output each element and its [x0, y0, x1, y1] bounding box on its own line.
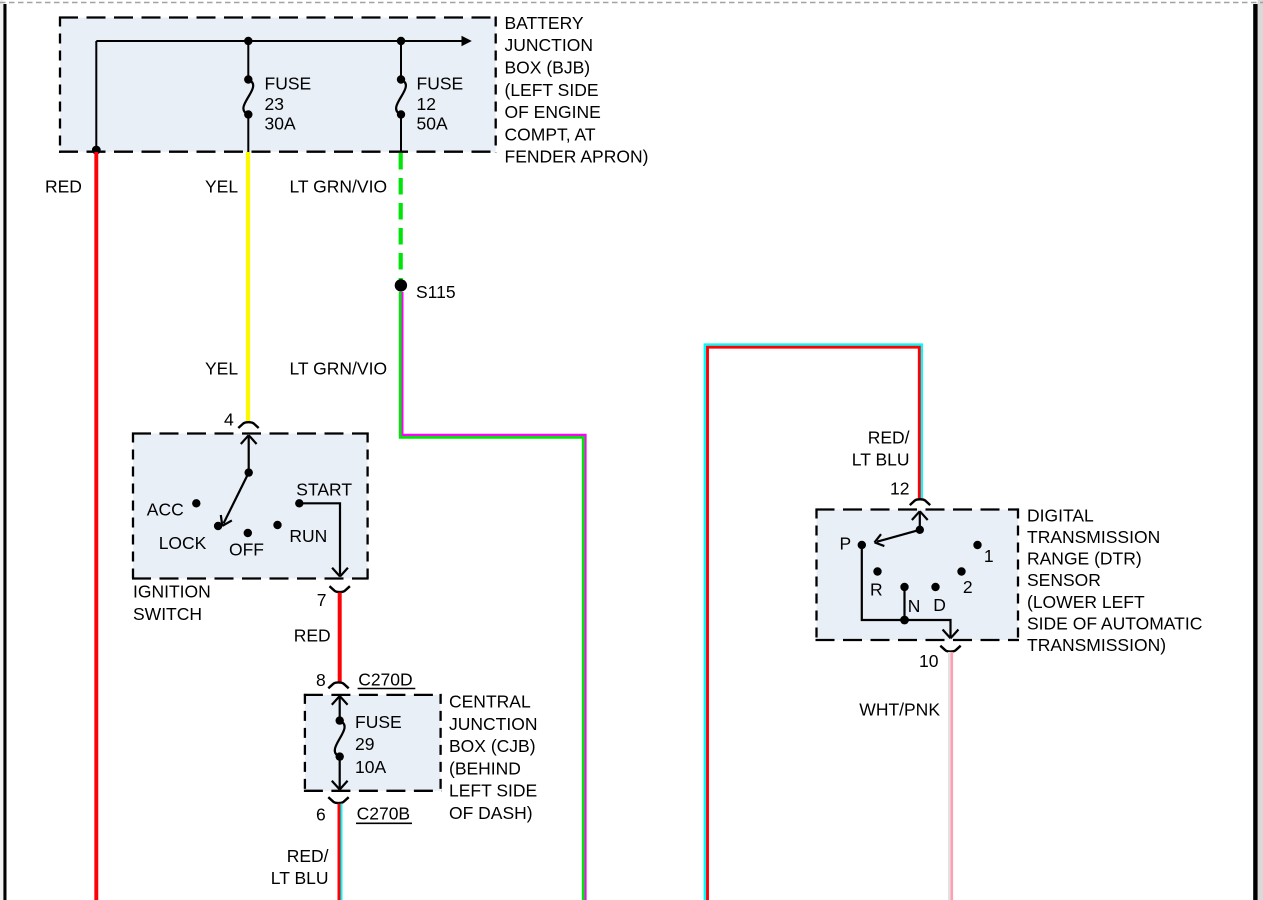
- contact R: [873, 567, 881, 575]
- contact START: [295, 499, 303, 507]
- label R: [870, 579, 883, 599]
- svg-text:FUSE: FUSE: [417, 74, 464, 94]
- svg-text:12: 12: [890, 478, 909, 498]
- svg-text:OF DASH): OF DASH): [449, 803, 533, 823]
- svg-text:LEFT SIDE: LEFT SIDE: [449, 781, 537, 801]
- svg-text:YEL: YEL: [205, 177, 238, 197]
- connector pin 7 (ignition switch): [330, 586, 350, 592]
- svg-text:(LEFT SIDE: (LEFT SIDE: [505, 80, 599, 100]
- svg-text:2: 2: [963, 577, 973, 597]
- junction dot rail-fuse 23: [244, 37, 252, 45]
- svg-text:FUSE: FUSE: [355, 712, 402, 732]
- svg-text:RED: RED: [45, 177, 82, 197]
- svg-text:DIGITAL: DIGITAL: [1027, 505, 1094, 525]
- label D: [933, 595, 946, 615]
- label pin 4: [224, 410, 234, 430]
- wire RED (pin 7 to C270D): [338, 593, 342, 682]
- svg-text:S115: S115: [416, 282, 456, 302]
- svg-text:7: 7: [317, 590, 327, 610]
- svg-text:BATTERY: BATTERY: [505, 13, 584, 33]
- contact RUN: [273, 521, 281, 529]
- box CJB (Central Junction Box): [304, 694, 442, 792]
- label YEL lower: [205, 359, 238, 379]
- svg-text:C270B: C270B: [357, 804, 411, 824]
- svg-text:JUNCTION: JUNCTION: [449, 714, 537, 734]
- label FUSE 23 30A: [265, 74, 312, 134]
- svg-text:IGNITION: IGNITION: [133, 582, 211, 602]
- svg-text:START: START: [296, 479, 352, 499]
- svg-text:(BEHIND: (BEHIND: [449, 758, 521, 778]
- fuse F23 (BJB): [243, 41, 253, 152]
- fuse F12 (BJB): [396, 41, 406, 152]
- label LT GRN/VIO lower: [290, 359, 388, 379]
- svg-text:OF ENGINE: OF ENGINE: [505, 102, 601, 122]
- label FUSE 12 50A: [417, 74, 464, 134]
- svg-text:D: D: [933, 595, 946, 615]
- svg-text:LT GRN/VIO: LT GRN/VIO: [290, 177, 388, 197]
- label RED/LT BLU (left): [271, 846, 329, 888]
- svg-text:TRANSMISSION: TRANSMISSION: [1027, 527, 1160, 547]
- contact LOCK: [214, 522, 222, 530]
- svg-text:RED: RED: [294, 625, 331, 645]
- label WHT/PNK: [859, 700, 940, 720]
- svg-text:RED/: RED/: [868, 427, 910, 447]
- contact D: [931, 583, 939, 591]
- label YEL upper: [205, 177, 238, 197]
- label RED/LT BLU (right): [852, 427, 910, 469]
- label 1: [984, 546, 994, 566]
- label FUSE 29 10A: [355, 712, 402, 777]
- svg-text:12: 12: [417, 94, 436, 114]
- label START: [296, 479, 352, 499]
- contact OFF: [244, 529, 252, 537]
- label pin 7: [317, 590, 327, 610]
- label pin 6: [316, 805, 326, 825]
- switch arm to P: [875, 530, 920, 546]
- svg-text:SIDE OF AUTOMATIC: SIDE OF AUTOMATIC: [1027, 613, 1202, 633]
- label pin 12: [890, 478, 909, 498]
- label CJB (CENTRAL JUNCTION BOX ...): [449, 692, 537, 824]
- wire RED/LT BLU (C270B to bottom): [339, 804, 342, 900]
- svg-text:4: 4: [224, 410, 234, 430]
- box DTR sensor: [816, 509, 1020, 642]
- box ignition switch: [132, 433, 369, 580]
- label P: [840, 534, 852, 554]
- svg-text:LT BLU: LT BLU: [852, 449, 910, 469]
- svg-text:LT BLU: LT BLU: [271, 868, 329, 888]
- contact ACC: [192, 499, 200, 507]
- svg-text:6: 6: [316, 805, 326, 825]
- junction dot N-output: [900, 616, 909, 625]
- connector pin 12 (DTR): [910, 499, 930, 505]
- label 2: [963, 577, 973, 597]
- label DTR (DIGITAL TRANSMISSION RANGE ...): [1027, 505, 1202, 655]
- label C270B: [356, 804, 412, 824]
- svg-text:P: P: [840, 534, 852, 554]
- svg-text:R: R: [870, 579, 883, 599]
- label LT GRN/VIO upper: [290, 177, 388, 197]
- wire RED/LT BLU (bridge to DTR pin 12): [705, 345, 922, 900]
- svg-text:N: N: [908, 596, 921, 616]
- label BJB (BATTERY JUNCTION BOX ...): [505, 13, 649, 167]
- label N: [908, 596, 921, 616]
- svg-text:FUSE: FUSE: [265, 74, 312, 94]
- svg-text:BOX (BJB): BOX (BJB): [505, 58, 591, 78]
- svg-text:TRANSMISSION): TRANSMISSION): [1027, 635, 1166, 655]
- svg-text:(LOWER LEFT: (LOWER LEFT: [1027, 592, 1145, 612]
- svg-text:RED/: RED/: [287, 846, 329, 866]
- wire YEL (BJB to ignition pin 4): [246, 152, 250, 422]
- connector pin 8 C270D: [328, 682, 348, 688]
- switch arm common (pin 4 arrow and pivot): [241, 435, 257, 477]
- label IGNITION SWITCH: [133, 582, 211, 624]
- wire BJB left feed drop: [95, 41, 97, 150]
- label ACC: [147, 499, 184, 519]
- label RED (ignition to CJB): [294, 625, 331, 645]
- svg-text:SENSOR: SENSOR: [1027, 570, 1101, 590]
- svg-text:COMPT, AT: COMPT, AT: [505, 124, 596, 144]
- label C270D: [358, 670, 416, 690]
- box BJB (Battery Junction Box): [59, 17, 497, 153]
- contact 1: [973, 541, 981, 549]
- svg-text:SWITCH: SWITCH: [133, 604, 202, 624]
- contact 2: [957, 567, 965, 575]
- svg-text:RUN: RUN: [289, 526, 327, 546]
- wire N drop to output: [903, 587, 905, 620]
- wire P to pin 10: [862, 545, 959, 638]
- svg-text:1: 1: [984, 546, 994, 566]
- contact P: [858, 541, 866, 549]
- connector pin 4 (ignition switch): [238, 422, 258, 428]
- junction dot rail-fuse 12: [397, 37, 405, 45]
- svg-text:FENDER APRON): FENDER APRON): [505, 147, 649, 167]
- svg-text:LT GRN/VIO: LT GRN/VIO: [290, 359, 388, 379]
- wire START to pin 7: [299, 503, 348, 576]
- svg-text:10A: 10A: [355, 757, 386, 777]
- label OFF: [229, 540, 264, 560]
- svg-text:C270D: C270D: [358, 670, 412, 690]
- svg-text:BOX (CJB): BOX (CJB): [449, 736, 536, 756]
- svg-text:23: 23: [265, 94, 284, 114]
- svg-text:YEL: YEL: [205, 359, 238, 379]
- svg-text:LOCK: LOCK: [159, 533, 207, 553]
- label RUN: [289, 526, 327, 546]
- svg-text:CENTRAL: CENTRAL: [449, 692, 531, 712]
- connector pin 6 C270B: [328, 797, 348, 803]
- svg-text:OFF: OFF: [229, 540, 264, 560]
- fuse F29 (CJB) with entry/exit arrows: [332, 696, 348, 790]
- svg-text:ACC: ACC: [147, 499, 184, 519]
- wire LT GRN/VIO solid (S115 to bottom): [400, 292, 585, 900]
- svg-text:8: 8: [316, 670, 326, 690]
- switch arm common DTR (pin 12 arrow and pivot): [912, 511, 928, 534]
- svg-text:10: 10: [919, 651, 939, 671]
- svg-text:29: 29: [355, 734, 374, 754]
- label LOCK: [159, 533, 207, 553]
- svg-text:WHT/PNK: WHT/PNK: [859, 700, 940, 720]
- label pin 8: [316, 670, 326, 690]
- switch arm to LOCK: [221, 473, 249, 526]
- svg-text:RANGE (DTR): RANGE (DTR): [1027, 549, 1142, 569]
- label RED: [45, 177, 82, 197]
- connector pin 10 (DTR): [940, 646, 960, 652]
- junction dot rail-left feed: [92, 146, 101, 155]
- splice S115: [395, 279, 407, 291]
- svg-text:30A: 30A: [265, 114, 296, 134]
- wire RED (BJB to bottom): [94, 152, 98, 900]
- svg-text:50A: 50A: [417, 114, 448, 134]
- label pin 10: [919, 651, 939, 671]
- label S115: [416, 282, 456, 302]
- wire BJB power rail with arrow: [96, 36, 472, 47]
- svg-text:JUNCTION: JUNCTION: [505, 35, 593, 55]
- wire WHT/PNK (pin 10 to bottom): [949, 652, 952, 900]
- wire LT GRN/VIO dashed (BJB to S115): [399, 153, 403, 280]
- contact N: [900, 583, 908, 591]
